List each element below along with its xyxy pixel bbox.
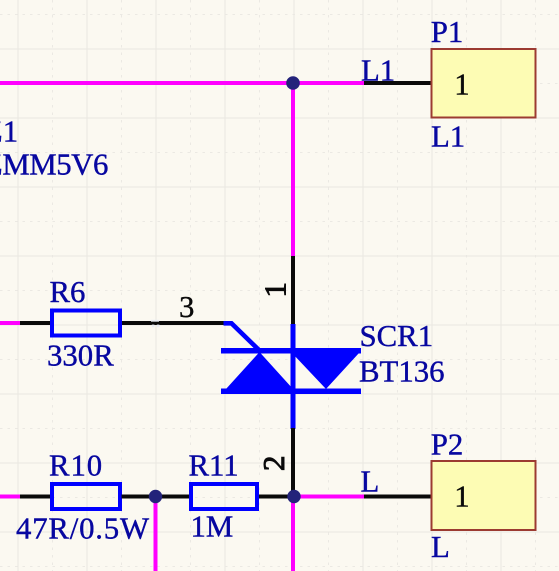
svg-text:R11: R11 — [189, 449, 239, 483]
svg-text:2: 2 — [257, 456, 291, 471]
svg-text:1: 1 — [454, 68, 469, 102]
svg-text:1M: 1M — [191, 510, 234, 544]
svg-text:L: L — [361, 465, 380, 499]
svg-text:1: 1 — [259, 282, 293, 297]
svg-text:P2: P2 — [431, 428, 464, 462]
svg-text:R6: R6 — [50, 275, 86, 309]
svg-text:P1: P1 — [431, 15, 464, 49]
svg-text:SCR1: SCR1 — [360, 319, 434, 353]
svg-text:47R/0.5W: 47R/0.5W — [16, 512, 150, 546]
svg-text:Z1: Z1 — [0, 115, 18, 149]
svg-text:3: 3 — [179, 290, 194, 324]
svg-text:330R: 330R — [47, 339, 114, 373]
svg-text:L1: L1 — [361, 54, 395, 88]
svg-text:1: 1 — [454, 480, 469, 514]
svg-text:ZMM5V6: ZMM5V6 — [0, 148, 108, 182]
svg-text:BT136: BT136 — [359, 355, 445, 389]
svg-text:R10: R10 — [49, 449, 103, 483]
svg-text:L1: L1 — [431, 120, 465, 154]
svg-text:L: L — [431, 530, 450, 564]
